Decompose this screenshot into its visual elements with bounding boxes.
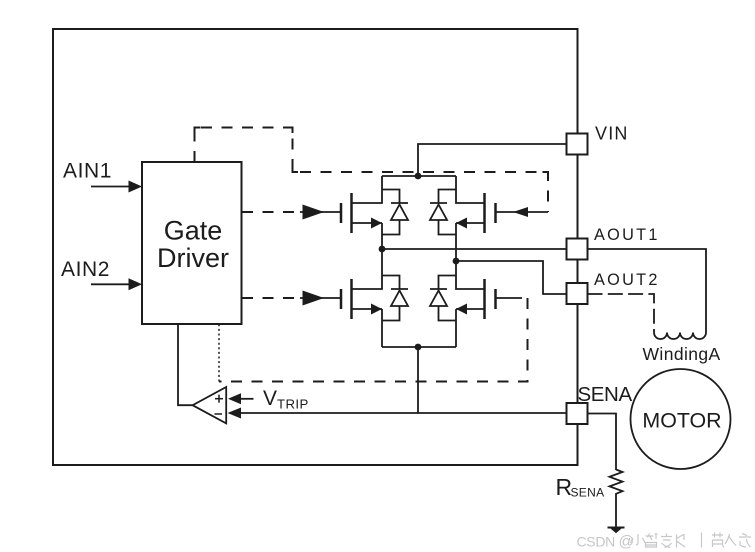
svg-text:TRIP: TRIP — [277, 397, 309, 412]
Q3 source arrow — [371, 304, 382, 315]
gate driver U1 box — [142, 162, 242, 324]
wire gate lead to Q4 — [496, 297, 523, 299]
motor M1 circle — [631, 369, 731, 469]
wire VIN feed — [418, 144, 567, 176]
wire SENA sense line with arrow into minus input — [228, 408, 567, 419]
wire bottom rail sense net — [382, 346, 456, 348]
svg-text:AOUT2: AOUT2 — [594, 271, 660, 289]
wire comparator output to driver — [178, 324, 193, 405]
wire SENA pin to resistor — [588, 414, 617, 471]
wire gate lead arrow into Q3 — [300, 291, 340, 306]
wire gate lead arrow into Q2 — [496, 207, 549, 217]
svg-text:Gate: Gate — [164, 216, 223, 246]
Q4 source arrow — [456, 304, 467, 315]
svg-text:SENA: SENA — [571, 486, 605, 500]
transistor Q2 (high side B) — [485, 193, 496, 233]
wire gate lead arrow into Q1 — [300, 205, 340, 220]
svg-text:AIN1: AIN1 — [63, 160, 112, 183]
comparator minus input mark — [215, 413, 223, 415]
wire dotted link to driver bottom — [218, 324, 220, 382]
Q2 source arrow — [456, 218, 467, 229]
svg-text:VIN: VIN — [595, 124, 629, 144]
svg-text:AIN2: AIN2 — [61, 258, 110, 281]
wire AIN1 input arrow — [91, 181, 142, 193]
wire top rail VIN net — [382, 175, 456, 177]
op-amp U2 current comparator — [193, 387, 227, 423]
transistor Q3 (low side A) — [341, 279, 352, 319]
pin VIN terminal — [567, 134, 588, 155]
svg-text:AOUT1: AOUT1 — [594, 226, 660, 244]
comparator plus input mark — [215, 395, 223, 403]
wire AOUT2 rail — [456, 261, 567, 294]
wire dashed gate lead to Q3 — [242, 297, 301, 299]
wire AOUT1 rail — [382, 248, 567, 250]
wire VTRIP input arrow — [228, 393, 254, 404]
node junction AOUT1 — [379, 246, 386, 253]
wire dashed feedback route right side — [219, 298, 528, 382]
wire sense tap down — [417, 347, 419, 413]
wire AOUT2 dashed to winding — [588, 294, 655, 333]
svg-text:V: V — [263, 387, 277, 410]
svg-text:SENA: SENA — [578, 383, 633, 406]
diode D4 body diode of Q4 — [430, 276, 456, 321]
pin AOUT2 terminal — [567, 283, 588, 304]
node junction top rail — [415, 173, 422, 180]
wire dashed gate-drive route from driver top — [195, 128, 549, 213]
device package boundary — [53, 29, 578, 465]
diode D1 body diode of Q1 — [382, 190, 408, 235]
transistor Q4 (low side B) — [485, 279, 496, 319]
pin SENA terminal — [567, 403, 588, 424]
diode D3 body diode of Q3 — [382, 276, 408, 321]
node junction sense — [415, 344, 422, 351]
wire AIN2 input arrow — [91, 278, 142, 290]
pin AOUT1 terminal — [567, 239, 588, 260]
node junction AOUT2 — [453, 258, 460, 265]
wire AOUT1 to motor winding — [588, 249, 707, 333]
wire resistor to ground — [615, 497, 617, 528]
inductor winding A — [654, 333, 706, 340]
svg-text:CSDN: CSDN — [577, 534, 615, 550]
wire dashed route corner marks — [195, 128, 549, 178]
svg-text:@: @ — [619, 534, 635, 551]
Q1 source arrow — [371, 218, 382, 229]
diode D2 body diode of Q2 — [430, 190, 456, 235]
svg-text:Driver: Driver — [157, 243, 229, 273]
svg-text:WindingA: WindingA — [643, 344, 721, 364]
svg-text:MOTOR: MOTOR — [642, 409, 721, 433]
transistor Q1 (high side A) — [341, 193, 352, 233]
resistor RSENA — [610, 470, 623, 497]
wire dashed gate lead to Q1 — [242, 211, 301, 213]
ground — [608, 528, 625, 534]
